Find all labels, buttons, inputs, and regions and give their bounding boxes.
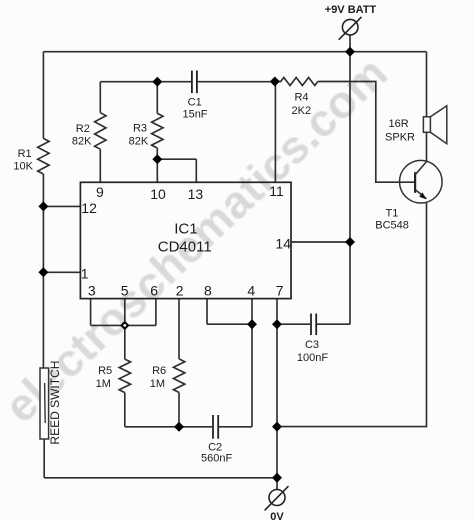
wire top rail [43,51,426,53]
wire 8-4 bus [207,323,252,325]
svg-text:14: 14 [275,236,291,252]
wire R3 bottom [156,148,158,159]
speaker frame [423,117,430,133]
wire pin1 [43,271,80,273]
node pin12 junction [38,201,48,211]
svg-text:100nF: 100nF [297,352,328,364]
svg-text:1M: 1M [96,378,111,390]
svg-text:6: 6 [150,282,158,298]
svg-text:16R: 16R [389,118,409,130]
wire C3 right [317,323,350,325]
battery terminal +9V [339,17,362,40]
wire C2 right [219,426,252,428]
wire C3 left [277,323,310,325]
svg-text:R2: R2 [76,123,90,135]
svg-text:R1: R1 [18,148,32,160]
reed switch contact [44,383,47,423]
wire R4 to base [318,82,415,183]
node R4 left junction [270,77,280,87]
svg-text:REED SWITCH: REED SWITCH [48,361,62,445]
wire 3-6 bus [91,324,156,326]
svg-text:82K: 82K [72,136,92,148]
wire emitter return [277,202,427,426]
node battery junction [345,47,355,57]
resistor R2 [95,113,106,150]
transistor Q1 emitter arrow [419,192,426,199]
speaker horn [430,106,446,144]
svg-text:R4: R4 [294,92,308,104]
wire R3 top [156,82,158,114]
svg-text:C1: C1 [188,97,202,109]
svg-text:8: 8 [204,282,212,298]
wire R2 top [99,82,101,113]
svg-text:1M: 1M [150,378,165,390]
wire collector up [426,132,428,161]
resistor R5 [119,359,130,393]
svg-text:C3: C3 [305,339,319,351]
transistor Q1 circle [400,160,443,203]
wire C2 left [125,426,212,428]
svg-text:10: 10 [150,186,166,202]
svg-text:+9V BATT: +9V BATT [325,4,377,16]
svg-text:560nF: 560nF [201,453,232,465]
capacitor C2 [213,415,218,439]
svg-text:1: 1 [81,266,89,282]
transistor Q1 base bar [414,172,416,193]
transistor Q1 collector [415,162,427,175]
svg-text:10K: 10K [13,161,33,173]
wire pin6 [155,299,157,326]
wire pin3 [90,299,92,326]
svg-text:CD4011: CD4011 [158,239,212,256]
svg-text:11: 11 [269,183,284,199]
wire R5 bottom [124,393,126,427]
resistor R4 [275,78,318,86]
wire pin8 [206,299,208,325]
resistor R3 [152,113,163,148]
wire pin2 [178,299,180,359]
resistor R6 [173,359,184,393]
wire bottom rail [44,477,277,479]
svg-text:2: 2 [176,282,184,298]
wire speaker top [426,52,428,117]
svg-text:R3: R3 [133,123,147,135]
node pin7 junction [272,319,282,329]
node R6 bottom junction [174,422,184,432]
svg-text:3: 3 [88,282,96,298]
svg-text:4: 4 [247,282,255,298]
wire rail2 left [100,81,191,83]
svg-text:T1: T1 [385,208,398,220]
svg-text:BC548: BC548 [375,220,409,232]
reed switch body [40,368,49,439]
wire left rail upper [42,52,44,139]
node pin14 junction [345,237,355,247]
wire jog 10-13 [157,158,196,160]
wire pin7 ground vertical [276,299,278,478]
wire 0V stub [276,478,278,490]
node emitter junction [272,422,282,432]
svg-text:13: 13 [188,186,204,202]
node R3 bottom junction [152,154,162,164]
svg-text:12: 12 [81,200,97,216]
wire pin5 [124,299,126,326]
transistor Q1 emitter [415,190,426,199]
svg-text:15nF: 15nF [182,109,207,121]
node pin5 ring junction [120,321,129,330]
capacitor C1 [192,71,197,94]
wire pin14 [291,241,350,243]
wire reed bottom [43,439,45,478]
ground terminal 0V [265,486,289,510]
wire R6 bottom [178,392,180,426]
wire battery vertical [349,35,351,324]
wire rail2 right [198,81,275,83]
svg-text:0V: 0V [270,511,284,520]
wire pin11 [274,82,276,183]
svg-text:9: 9 [96,184,104,200]
wire left rail mid [42,174,44,368]
wire node to R5 [124,325,126,359]
svg-text:SPKR: SPKR [385,131,415,143]
svg-text:2K2: 2K2 [292,105,312,117]
node R3 top junction [152,77,162,87]
wire pin4 drop [251,324,253,427]
capacitor C3 [311,314,316,336]
node pin4 junction [247,319,257,329]
svg-text:IC1: IC1 [174,221,197,238]
svg-text:82K: 82K [129,136,149,148]
svg-text:5: 5 [121,282,129,298]
wire pin10 [156,159,158,182]
resistor R1 [38,138,49,174]
svg-text:7: 7 [276,282,284,298]
node pin1 junction [38,267,48,277]
wire pin9 [99,149,101,182]
wire pin13 [195,159,197,182]
svg-text:R5: R5 [98,365,112,377]
IC U1 box [80,182,291,298]
node bottom rail junction [272,473,282,483]
svg-text:R6: R6 [152,365,166,377]
wire pin4 [251,299,253,325]
wire pin12 [43,205,80,207]
